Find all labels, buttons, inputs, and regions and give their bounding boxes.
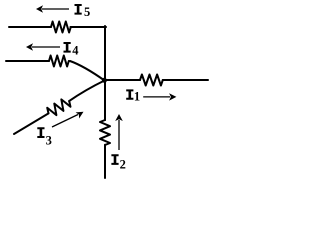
arrow I4: [26, 43, 60, 51]
node junction dot: [102, 78, 107, 83]
svg-text:1: 1: [134, 90, 140, 104]
resistor R2: [100, 120, 110, 145]
arrow I5: [36, 5, 69, 13]
wire vertical node to resistor: [104, 80, 106, 120]
resistor R5: [51, 22, 71, 33]
svg-text:4: 4: [72, 44, 79, 58]
label I3: [37, 127, 52, 147]
label I5: [75, 4, 91, 19]
resistor R3: [46, 96, 72, 118]
svg-text:5: 5: [84, 5, 90, 19]
wire vertical below resistor: [104, 145, 106, 178]
wire right from node: [105, 79, 141, 81]
wire I3 lower diagonal segment: [14, 113, 49, 134]
arrow I1: [143, 93, 176, 100]
label I4: [63, 42, 79, 58]
wire top horizontal right segment: [71, 26, 107, 28]
wire right to edge: [163, 79, 208, 81]
wire top horizontal left segment: [9, 26, 51, 28]
svg-text:3: 3: [46, 134, 52, 148]
wire I4 horizontal: [6, 60, 49, 62]
svg-text:2: 2: [120, 158, 126, 172]
label I2: [111, 154, 125, 171]
wire vertical from corner to node: [104, 26, 106, 80]
arrow I3: [52, 112, 84, 127]
resistor R4: [49, 56, 69, 67]
arrow I2: [115, 114, 123, 150]
wire I4 to diagonal: [70, 61, 105, 81]
wire I3 upper diagonal segment: [69, 81, 104, 102]
resistor R1: [140, 75, 163, 86]
label I1: [126, 89, 140, 103]
